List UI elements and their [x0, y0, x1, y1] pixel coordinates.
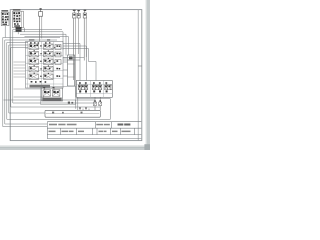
wire nest N2 [20, 34, 66, 55]
wire stub A [4, 26, 6, 38]
title row1 divider c [111, 122, 113, 129]
wire connector mid [63, 57, 84, 59]
wire nest N3 [25, 37, 69, 55]
wire lower P line [4, 99, 77, 101]
shuttle valve SH1 [16, 27, 22, 31]
wire stub port 6 [14, 76, 26, 78]
title row2 divider a [60, 128, 62, 134]
title row2 divider g [133, 128, 135, 134]
title block row line 1 [47, 127, 141, 129]
pilot valve block PV1 label [1, 10, 8, 12]
title text serial [96, 124, 103, 126]
main control valve bank MCV [26, 42, 64, 90]
inner right margin line [137, 10, 139, 141]
title row2 divider f [120, 128, 122, 134]
cluster label b [47, 39, 50, 41]
title text col auadaq [122, 131, 131, 133]
check valve CV1 [94, 97, 97, 110]
lower valve block LVB [41, 86, 76, 104]
title text col pload [78, 131, 84, 133]
title row2 divider e [110, 128, 112, 134]
wire right drop [109, 99, 111, 120]
cluster gap flecks [34, 45, 56, 77]
valve group G3 [105, 82, 113, 92]
solenoid valve SV2 [77, 10, 80, 54]
scan shadow bottom edge [0, 145, 150, 150]
wire lower T line [14, 96, 45, 98]
wire stub B [17, 32, 19, 35]
title row2 divider d [96, 128, 98, 134]
wire under block [76, 99, 95, 101]
right border tick [138, 65, 142, 67]
wire cyl stub 3 [63, 69, 68, 71]
accumulator ACC1 [39, 8, 43, 41]
cluster bottom bar [30, 85, 51, 88]
wire R1 [63, 44, 80, 81]
wire nest N1 [14, 32, 64, 50]
border frame [10, 10, 142, 141]
valve dark marks [30, 45, 60, 83]
valve group G1 [78, 82, 88, 93]
title row2 divider c [92, 128, 94, 134]
solenoid valve SV1 [73, 10, 76, 98]
wire stub port 5 [14, 73, 26, 75]
title text model codes [49, 124, 57, 126]
wire cyl stub 4 [63, 75, 68, 77]
wire bus L4 [9, 45, 45, 113]
cluster label a [29, 39, 34, 41]
title block bottom line [47, 138, 141, 140]
wire stub C [24, 28, 26, 32]
valve group G2 [92, 82, 102, 92]
hydraulic cylinder CYL1 [68, 55, 75, 86]
title text col frame [49, 131, 56, 133]
wire bus L3 [7, 43, 111, 120]
auxiliary valve block AVB (right) [76, 81, 112, 98]
wire cyl stub 1 [63, 57, 68, 59]
LEFT BUS WIRES [3, 30, 111, 127]
wire R3 [63, 49, 96, 81]
pilot valve block PV2 label [13, 9, 21, 11]
title text col africa [112, 131, 118, 133]
wire under block 2 [76, 98, 110, 100]
wire stub port 3 [14, 67, 26, 69]
wire stub port 1 [14, 61, 26, 63]
wire bus L1 [3, 38, 60, 127]
wire R2 [63, 46, 87, 81]
title block top line [47, 121, 141, 123]
solenoid valve SV3 [83, 10, 86, 61]
wire manifold drop 2 [77, 97, 79, 110]
wire bus L2 [5, 40, 57, 124]
title row2 divider b [76, 128, 78, 134]
title row1 divider b [94, 122, 96, 129]
wire to lower block [14, 88, 41, 90]
cluster top band marks [30, 42, 32, 44]
title text col monther [62, 131, 69, 133]
check valve CV2 [99, 97, 102, 110]
valve cells [29, 44, 61, 79]
cluster grid lines [26, 42, 64, 89]
title text col signin [99, 131, 104, 133]
cluster-to-right wires [63, 44, 110, 120]
wire bus L6 [13, 30, 96, 104]
wire cyl stub 2 [63, 61, 68, 63]
wire connector mid 2 [63, 59, 80, 61]
pilot valve block PV1 [1, 12, 9, 25]
wire bus L5 [11, 48, 101, 108]
wire stub port 2 [14, 64, 26, 66]
wire block bottom feed [75, 100, 77, 109]
cluster stems to lower block [44, 88, 46, 90]
scan shadow right edge [146, 0, 150, 150]
scan shadow corner [144, 144, 150, 150]
pilot valve block PV2 [13, 11, 24, 28]
tank manifold TM1 [45, 107, 100, 117]
title block row line 2 [47, 134, 141, 136]
wire stub port 4 [14, 70, 26, 72]
valve cell X diagonals [29, 44, 53, 79]
title text doc number [118, 124, 124, 126]
title block left edge [46, 122, 48, 139]
upper nest wires [5, 26, 84, 60]
